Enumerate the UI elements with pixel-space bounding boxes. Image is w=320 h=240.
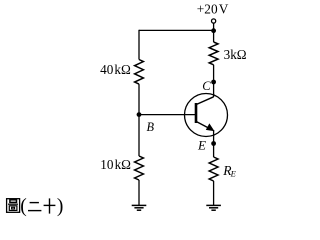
wire left branch upper (138, 30, 140, 60)
wire terminal to top junction (213, 23, 215, 42)
node E junction dot (211, 141, 216, 146)
wire top rail horizontal (139, 29, 214, 31)
ground right (206, 205, 221, 210)
junction dot top node (211, 28, 216, 33)
resistor R1 40kΩ (135, 60, 144, 85)
transistor Q1 base bar (195, 103, 198, 123)
wire 10k to left ground (138, 180, 140, 205)
terminal +20V open circle (212, 19, 216, 23)
svg-text:10 kΩ: 10 kΩ (100, 157, 131, 172)
wire 3k to collector (213, 65, 215, 97)
resistor R2 10kΩ (135, 156, 144, 180)
resistor R3 3kΩ (209, 42, 218, 65)
svg-text:3kΩ: 3kΩ (224, 47, 247, 62)
svg-text:RE: RE (222, 163, 236, 179)
caption figure twenty: glyph 圖 (7, 199, 20, 213)
wire emitter down to node E (213, 130, 215, 157)
svg-text:C: C (202, 79, 211, 93)
wire base from node B (139, 114, 196, 116)
svg-text:(: ( (20, 196, 27, 217)
svg-text:B: B (147, 120, 155, 134)
ground left (132, 205, 147, 210)
svg-text:+20 V: +20 V (197, 2, 229, 17)
caption glyph 二 (28, 203, 41, 211)
node C junction dot (211, 80, 216, 85)
node B junction dot (137, 112, 142, 117)
resistor RE (209, 157, 218, 181)
svg-text:): ) (57, 196, 64, 217)
svg-text:40 kΩ: 40 kΩ (100, 62, 131, 77)
wire RE to right ground (213, 181, 215, 205)
transistor Q1 emitter lead (196, 121, 211, 129)
transistor Q1 circle (185, 94, 228, 137)
wire 40k to 10k through node B (138, 84, 140, 156)
caption glyph 十 (44, 198, 56, 213)
svg-text:E: E (197, 137, 206, 152)
transistor Q1 collector lead (196, 97, 214, 105)
transistor Q1 emitter arrowhead (206, 124, 214, 131)
